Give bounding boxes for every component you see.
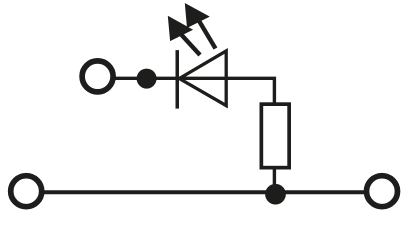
LED light arrow 2 (185, 3, 216, 49)
wire top feed from terminal through LED to resistor (98, 78, 275, 193)
LED D1 cathode bar (176, 50, 180, 109)
node junction dot top (137, 69, 157, 89)
terminal circle top left (82, 61, 113, 92)
terminal circle bottom left (11, 176, 42, 207)
resistor R1 (261, 104, 289, 167)
wire bottom bus (26, 190, 382, 194)
LED D1 triangle (179, 51, 226, 106)
node junction dot bottom (265, 184, 286, 205)
terminal circle bottom right (367, 176, 398, 207)
LED light arrow 1 (168, 16, 200, 55)
